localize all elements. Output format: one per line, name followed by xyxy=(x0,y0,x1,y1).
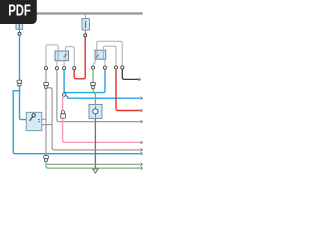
relay R2 box xyxy=(95,50,106,59)
ignition switch pin 2 lead xyxy=(42,124,52,126)
svg-text:PDF: PDF xyxy=(8,3,31,20)
wire green bottom to right arrow xyxy=(46,161,140,168)
connector on gray wire A bottom xyxy=(44,156,49,162)
connector on green wire xyxy=(91,82,96,88)
wire red from relay R2 terminal 3 to right arrow xyxy=(116,69,140,110)
ignition switch pin 1 branch xyxy=(42,118,46,120)
relay R2 loop inner xyxy=(103,46,116,66)
relay R1 terminal stubs xyxy=(56,61,58,67)
relay R2 terminal 1 node xyxy=(91,66,94,69)
arrow blue right edge y98 xyxy=(141,97,143,100)
node B xyxy=(62,93,65,96)
wire gray from motor down to ground arrow xyxy=(94,118,96,169)
relay R2 terminal stubs xyxy=(93,59,95,66)
node under fuse F1 xyxy=(18,32,21,35)
arrow gray right edge y150 xyxy=(141,149,143,152)
wire blue from relay R1 terminal 3 to node B xyxy=(63,70,65,93)
arrow blue right edge y154 xyxy=(141,152,143,155)
wire gray branch from connector A to switch pin 2 and right arrow xyxy=(46,88,140,150)
wire gray C lower branch to right arrow xyxy=(47,163,140,165)
relay R1 terminal 3 node xyxy=(63,67,66,70)
wire green from relay R2 terminal 1 to washer motor xyxy=(93,69,95,104)
PDF badge xyxy=(0,0,37,24)
relay R1 coil loop left xyxy=(46,45,58,67)
connector on gray wire A xyxy=(44,82,49,88)
connector on blue wire xyxy=(17,80,22,86)
thermal fuse on pink wire xyxy=(61,111,66,119)
wire gray A from relay R1 terminal 1 down xyxy=(45,70,47,165)
arrow gray right edge y121 xyxy=(141,120,143,123)
ground arrow xyxy=(93,169,98,173)
fuse F1 xyxy=(16,14,23,32)
relay R2 terminal 4 node xyxy=(121,66,124,69)
fuse F2 xyxy=(82,14,89,34)
wire blue relay R2 terminal 2 link xyxy=(64,69,105,92)
ignition switch SW1 xyxy=(26,112,42,130)
relay R2 terminal 2 node xyxy=(103,66,106,69)
arrow pink right edge y142 xyxy=(141,141,143,144)
top power rail xyxy=(0,12,143,14)
relay R1 box xyxy=(55,51,69,61)
arrow red right edge y110 xyxy=(141,109,143,112)
arrow green right edge y168 xyxy=(141,167,143,170)
wire blue from fuse F1 down to ignition switch xyxy=(20,35,27,119)
relay R1 terminal 4 node xyxy=(73,67,76,70)
wire black from relay R2 terminal 4 xyxy=(122,69,138,79)
arrow black wire end xyxy=(139,78,141,81)
wire red from fuse F2 to relay R1 terminal 4 xyxy=(74,37,85,79)
node under fuse F2 xyxy=(84,34,87,37)
relay R2 switch contact xyxy=(96,55,99,58)
relay R1 terminal 2 node xyxy=(55,67,58,70)
relay R1 terminal 1 node xyxy=(44,67,47,70)
relay R2 coil loop outer xyxy=(97,41,122,66)
wire gray B from relay R1 terminal 2 to right arrow xyxy=(57,70,140,122)
relay R1 switch contact xyxy=(64,54,67,57)
relay R2 terminal 3 node xyxy=(114,66,117,69)
wire blue branch to bottom rail xyxy=(13,91,140,154)
relay R1 loop right xyxy=(65,47,74,67)
arrow gray right edge y164 xyxy=(141,163,143,166)
wire pink from node B down xyxy=(63,96,141,142)
wire blue from node B to right arrow xyxy=(66,95,141,98)
washer motor M1 xyxy=(89,104,102,118)
